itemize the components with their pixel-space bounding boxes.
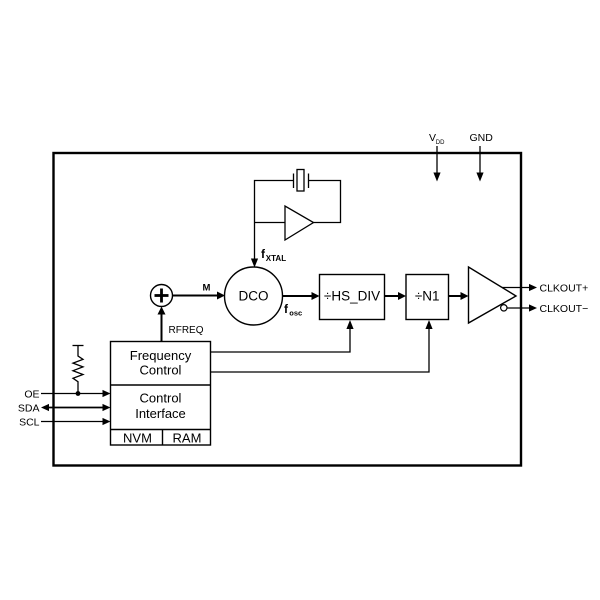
pin GND arrowhead [476, 173, 483, 182]
wire amp input [255, 222, 286, 224]
wire M arrow [173, 295, 218, 297]
svg-text:Frequency: Frequency [130, 348, 192, 363]
svg-text:OE: OE [24, 389, 39, 401]
svg-text:RAM: RAM [173, 431, 202, 446]
divider NVM|RAM [162, 430, 164, 446]
wire CLKOUT- [507, 307, 530, 309]
wire HS_DIV to N1 [385, 295, 399, 297]
wire crystal loop top-left [255, 181, 294, 223]
output buffer U4 [469, 267, 517, 323]
pin VDD wire [436, 146, 438, 174]
wire RFREQ arrow [161, 314, 163, 341]
svg-text:XTAL: XTAL [266, 254, 286, 263]
wire crystal loop right [309, 181, 341, 223]
divider freq/control [111, 384, 211, 386]
summing node S1 [151, 285, 173, 307]
wire OE [41, 393, 104, 395]
svg-text:GND: GND [470, 132, 494, 144]
svg-text:÷HS_DIV: ÷HS_DIV [324, 289, 380, 304]
crystal X1 body [297, 170, 304, 192]
divider control/nvm [111, 429, 211, 431]
divider U2 HS_DIV [320, 275, 385, 320]
crystal X1 left plate [293, 174, 295, 189]
pin GND wire [479, 146, 481, 174]
svg-text:Interface: Interface [135, 406, 186, 421]
svg-text:RFREQ: RFREQ [169, 325, 204, 336]
chip boundary box [54, 153, 522, 466]
svg-text:SCL: SCL [19, 417, 40, 429]
svg-text:NVM: NVM [123, 431, 152, 446]
divider U3 N1 [406, 275, 449, 320]
svg-text:Control: Control [140, 391, 182, 406]
wire feedback to HS_DIV [211, 327, 351, 352]
block Frequency Control / Control Interface [111, 342, 211, 446]
resistor R1 top bar [73, 345, 84, 347]
wire CLKOUT+ [502, 287, 530, 289]
svg-text:DD: DD [436, 140, 445, 146]
wire SCL [41, 421, 104, 423]
svg-text:SDA: SDA [18, 403, 40, 415]
node junction OE/R1 [76, 391, 81, 396]
resistor R1 [73, 346, 83, 394]
pin VDD arrowhead [433, 173, 440, 182]
inversion bubble [501, 305, 507, 311]
wire fXTAL down [254, 223, 256, 261]
op-amp oscillator amplifier [285, 206, 314, 240]
arrowhead fXTAL into DCO [251, 259, 258, 268]
svg-text:M: M [203, 283, 211, 294]
wire N1 to buffer [449, 295, 462, 297]
wire fosc arrow [283, 295, 313, 297]
oscillator DCO [225, 267, 283, 325]
svg-text:÷N1: ÷N1 [415, 289, 440, 304]
wire feedback to N1 [211, 327, 430, 372]
svg-text:DCO: DCO [239, 289, 269, 304]
svg-text:CLKOUT+: CLKOUT+ [540, 283, 589, 295]
wire SDA bidirectional [48, 407, 104, 409]
svg-text:Control: Control [140, 363, 182, 378]
svg-text:osc: osc [289, 309, 302, 318]
crystal X1 right plate [308, 174, 310, 189]
svg-text:CLKOUT−: CLKOUT− [540, 303, 589, 315]
